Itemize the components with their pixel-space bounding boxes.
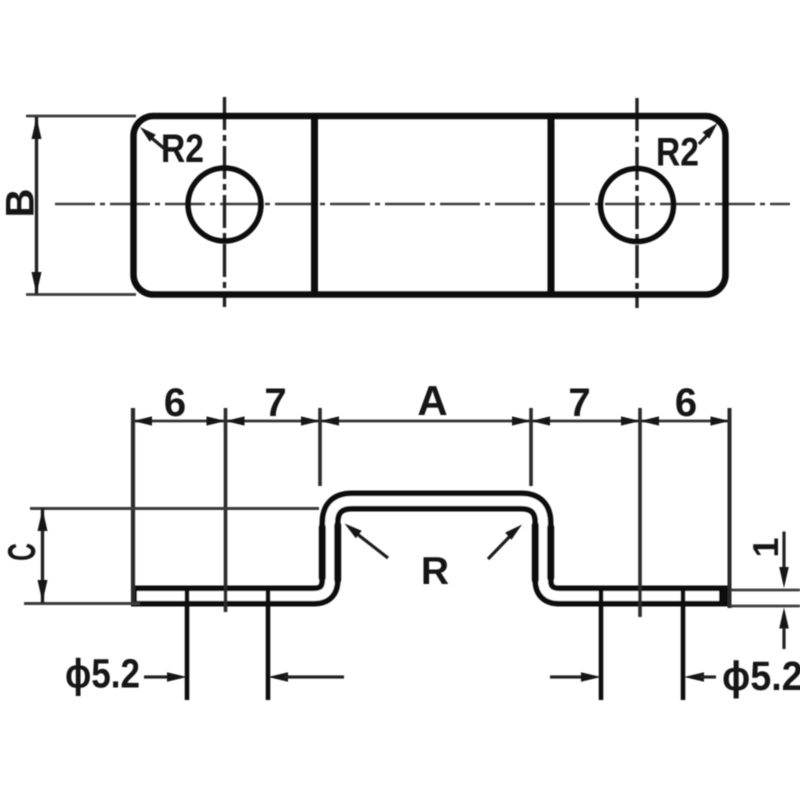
- extension line x320: [318, 408, 322, 486]
- plate outline rounded rectangle: [134, 116, 726, 295]
- left leg line thickening: [319, 527, 326, 578]
- R leader right: [488, 531, 515, 559]
- vertical center line right hole: [635, 98, 638, 308]
- vertical center line left hole: [223, 97, 226, 307]
- hole right: [601, 169, 674, 242]
- bend line right: [548, 116, 555, 295]
- hole left: [188, 168, 261, 241]
- label C: [8, 544, 36, 560]
- clamp profile metal strip outer: [131, 501, 729, 596]
- extension line x729: [728, 408, 732, 608]
- t extension line bottom: [731, 605, 800, 608]
- dim text 6 right: [676, 388, 695, 416]
- t extension line top: [731, 589, 800, 592]
- label R2 left: [163, 134, 202, 162]
- B arrow down: [32, 272, 42, 294]
- extension center line left hole: [224, 408, 228, 612]
- extension center line right hole: [638, 408, 642, 617]
- C extension line bottom: [24, 602, 140, 605]
- arrows of 6-7-A-7-6 dimension: [133, 416, 152, 425]
- phi5.2 right dim arrows: [550, 675, 584, 678]
- clamp profile metal strip inner white: [137, 501, 719, 596]
- label phi5.2 left: [66, 658, 138, 696]
- extension line x531: [529, 408, 533, 486]
- phi5.2 left dim arrows: [144, 675, 172, 678]
- R leader left: [352, 530, 388, 558]
- extension line x133: [131, 408, 135, 604]
- B extension line top: [26, 115, 136, 118]
- dim text 6 left: [165, 388, 184, 416]
- hole wall right-left: [599, 586, 604, 700]
- R2 leader right: [699, 130, 712, 144]
- label phi5.2 right: [724, 660, 800, 698]
- hole wall right-right: [681, 586, 686, 700]
- label R2 right: [658, 138, 697, 166]
- label B: [6, 190, 34, 214]
- dim text 7 right: [570, 389, 589, 417]
- top dimension line: [133, 420, 730, 423]
- dim text 7 left: [266, 389, 285, 417]
- t dimension upper: [782, 532, 785, 571]
- horizontal center line: [55, 203, 790, 206]
- t dimension lower: [779, 608, 789, 629]
- R2 leader left: [148, 135, 166, 150]
- hole wall left-right: [266, 586, 271, 700]
- label thickness 1: [753, 539, 778, 556]
- right leg line thickening: [532, 525, 539, 580]
- C arrow up: [38, 509, 48, 531]
- B extension line bottom: [26, 293, 136, 296]
- B arrow up: [32, 117, 42, 139]
- C arrow down: [38, 580, 48, 602]
- C dimension line: [41, 508, 44, 603]
- C extension line top: [30, 507, 319, 510]
- bend line left: [311, 116, 318, 295]
- B dimension line: [35, 117, 38, 294]
- dim text A: [418, 386, 446, 415]
- label R: [424, 557, 449, 584]
- hole wall left-left: [185, 586, 190, 700]
